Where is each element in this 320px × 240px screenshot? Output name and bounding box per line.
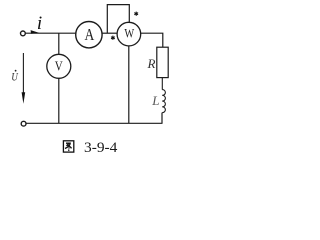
wattmeter W [117,22,141,46]
svg-text:R: R [147,56,156,71]
wire top rail left segment (T1 to ammeter) [26,32,76,34]
caption glyph 图 [63,141,73,152]
svg-text:A: A [85,25,95,44]
node J1 wire (junction down to voltmeter) [58,33,60,54]
svg-text:i: i [37,13,42,34]
wire R to L [161,78,163,90]
svg-text:U: U [11,70,18,84]
wire voltmeter to bottom rail [58,78,60,123]
svg-text:V: V [55,59,63,74]
current arrow i (on top wire) [31,30,40,34]
inductor L (coil, 4 loops) [162,90,165,113]
wire W to right corner down to R [141,33,163,47]
wire bottom rail [26,122,162,124]
wire segment A to W (node J2 at x=107.3) [102,32,117,34]
terminal T1 (top-left input) [21,31,26,36]
resistor R (rectangle) [157,47,168,77]
asterisk mark (voltage coil, top-right of W) [135,12,138,15]
wire W voltage coil to bottom rail [128,46,130,123]
voltmeter V [47,54,71,78]
svg-text:L: L [151,93,159,108]
ammeter A [76,22,102,48]
voltage arrow U (reference direction) [22,53,24,95]
wattmeter voltage-coil loop wire [107,5,129,34]
asterisk mark (current coil, below wire left of W) [111,36,114,39]
svg-text:W: W [124,26,134,41]
terminal T2 (bottom-left) [21,121,26,126]
svg-text:3-9-4: 3-9-4 [84,140,118,156]
wire L to bottom rail corner [161,113,163,124]
